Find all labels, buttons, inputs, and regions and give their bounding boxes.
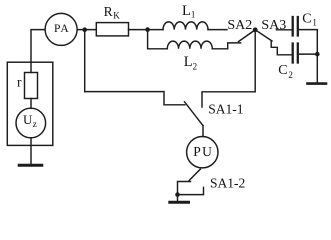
wire xyxy=(299,30,317,83)
node junction C xyxy=(253,27,258,32)
svg-text:L1: L1 xyxy=(182,3,195,19)
wire xyxy=(129,29,164,31)
svg-text:PA: PA xyxy=(54,23,70,35)
node junction A xyxy=(82,27,87,32)
switch SA1-1 blade xyxy=(185,102,204,126)
wire xyxy=(202,30,255,107)
svg-text:C2: C2 xyxy=(278,63,293,80)
svg-text:SA1-1: SA1-1 xyxy=(208,101,243,116)
wire xyxy=(178,182,191,195)
wire xyxy=(30,99,32,109)
capacitor C2 xyxy=(293,44,298,63)
wire xyxy=(178,187,204,194)
svg-text:SA3: SA3 xyxy=(261,18,286,33)
node junction D xyxy=(175,192,180,197)
ground xyxy=(170,201,189,204)
wire xyxy=(78,29,97,31)
wire xyxy=(177,195,179,201)
wire xyxy=(85,92,185,105)
wire xyxy=(299,53,317,55)
wire xyxy=(202,126,204,137)
svg-text:L2: L2 xyxy=(184,54,197,72)
wire xyxy=(148,30,168,49)
capacitor C1 xyxy=(293,17,298,36)
ammeter PA xyxy=(45,13,77,45)
voltmeter PU xyxy=(187,137,218,168)
resistor RK xyxy=(96,23,128,36)
inductor L2 xyxy=(167,41,212,49)
svg-text:r: r xyxy=(17,75,22,90)
wire xyxy=(271,41,291,55)
wire xyxy=(208,29,227,31)
svg-text:C1: C1 xyxy=(302,12,317,28)
svg-text:SA2: SA2 xyxy=(227,18,252,33)
ground xyxy=(308,82,327,85)
wire xyxy=(31,30,45,63)
switch SA2 blade xyxy=(239,30,256,42)
source UZ xyxy=(16,108,46,138)
wire xyxy=(212,43,240,49)
resistor r xyxy=(25,73,38,99)
svg-text:PU: PU xyxy=(193,144,213,159)
wire xyxy=(276,29,291,31)
source box xyxy=(7,62,53,145)
wire xyxy=(84,30,86,92)
wire xyxy=(30,62,32,72)
node junction B xyxy=(145,27,150,32)
wire xyxy=(30,138,32,164)
inductor L1 xyxy=(163,22,208,30)
switch SA1-2 blade xyxy=(189,169,200,180)
svg-text:Uz: Uz xyxy=(23,112,37,129)
ground xyxy=(19,164,42,167)
node junction E xyxy=(315,52,320,57)
svg-text:RK: RK xyxy=(104,4,121,20)
svg-text:SA1-2: SA1-2 xyxy=(210,176,245,191)
switch SA3 blade xyxy=(255,30,272,41)
